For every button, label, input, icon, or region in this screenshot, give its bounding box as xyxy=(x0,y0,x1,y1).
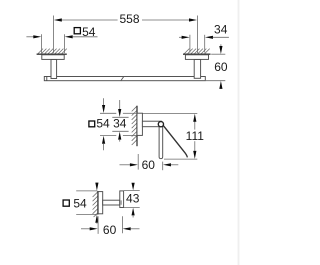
square symbol for 54 (top drawing) xyxy=(74,28,80,34)
dimension 54 arrows (bottom) xyxy=(95,183,98,224)
right wall plate xyxy=(185,55,208,60)
dimension 60 extension lines (top drawing) xyxy=(211,53,225,55)
dimension 558 line and arrows xyxy=(54,18,197,21)
wall plate (bottom) xyxy=(98,192,103,214)
dimension 60 arrows (middle) xyxy=(120,163,179,166)
svg-text:60: 60 xyxy=(142,158,156,172)
towel bar xyxy=(44,77,205,81)
svg-text:111: 111 xyxy=(186,129,205,143)
faint page divider line xyxy=(238,0,240,265)
svg-text:558: 558 xyxy=(119,12,139,26)
dimension 34 extension lines (middle) xyxy=(112,116,128,118)
dimension 43 arrows (bottom) xyxy=(132,183,135,218)
square symbol for 54 (bottom) xyxy=(63,200,69,206)
54 top extension line (middle, gap at 34 arrow) xyxy=(100,112,116,114)
bar left end cap line xyxy=(46,77,48,81)
dimension 34 extension line left (top drawing) xyxy=(189,35,191,53)
wall line middle xyxy=(136,106,138,147)
pivot circle (middle) xyxy=(158,122,163,127)
left wall plate xyxy=(42,55,64,60)
svg-text:43: 43 xyxy=(126,191,140,205)
wall line right post xyxy=(183,53,211,55)
dimension 558 extension line right xyxy=(196,16,198,54)
dimension 111 line and arrows (middle) xyxy=(193,114,196,159)
54 bottom extension line (middle, gap at 34 arrow) xyxy=(100,134,116,136)
wall line left post xyxy=(37,53,67,55)
right post stem xyxy=(194,59,200,78)
dimension 60 extension lines (middle) xyxy=(137,154,139,170)
hook body (bottom) xyxy=(120,191,124,208)
square symbol for 54 (middle) xyxy=(89,121,95,127)
dimension 60 arrows (top drawing) xyxy=(219,44,222,89)
svg-text:60: 60 xyxy=(214,60,228,74)
swing flag (middle) xyxy=(163,125,187,157)
svg-text:54: 54 xyxy=(73,197,87,211)
stem end cap inside hook (bottom) xyxy=(120,200,122,204)
roll pin (middle) xyxy=(159,126,163,159)
bar break slash xyxy=(121,76,124,81)
dimension 54 extension line left (top drawing) xyxy=(41,34,43,53)
wall hatching bottom xyxy=(93,192,98,217)
svg-text:34: 34 xyxy=(214,23,228,37)
111 bottom extension line (middle) xyxy=(164,158,197,160)
hook stem (bottom) xyxy=(103,200,120,205)
dimension 60 arrows (bottom) xyxy=(81,227,140,230)
dimension 60 extension lines (bottom) xyxy=(97,216,99,234)
svg-text:54: 54 xyxy=(82,25,96,39)
wall plate (middle) xyxy=(137,113,142,135)
wall hatching right post xyxy=(184,49,209,54)
dimension 43 extension lines (bottom) xyxy=(124,190,140,192)
left post stem xyxy=(51,59,57,78)
svg-text:34: 34 xyxy=(113,117,127,131)
dimension 558 extension line left xyxy=(52,16,54,54)
svg-text:60: 60 xyxy=(103,223,117,237)
wall hatching middle xyxy=(132,106,137,145)
111 top extension line (middle) xyxy=(142,113,197,115)
holder arm (middle) xyxy=(142,121,161,127)
dimension 54 extension lines (bottom) xyxy=(76,190,97,192)
svg-text:54: 54 xyxy=(96,117,110,131)
wall line bottom xyxy=(97,191,99,215)
wall hatching left post xyxy=(38,49,67,54)
dimension 54 arrows (top drawing) xyxy=(26,35,97,38)
dimension 34 arrows (middle) xyxy=(118,100,121,142)
dimension 34 extension line right (top drawing) xyxy=(204,35,206,53)
dimension 54 extension line right (top drawing) xyxy=(63,34,65,53)
dimension 34 arrows (top drawing) xyxy=(179,36,229,39)
dimension 54 arrows (middle) xyxy=(102,98,105,150)
